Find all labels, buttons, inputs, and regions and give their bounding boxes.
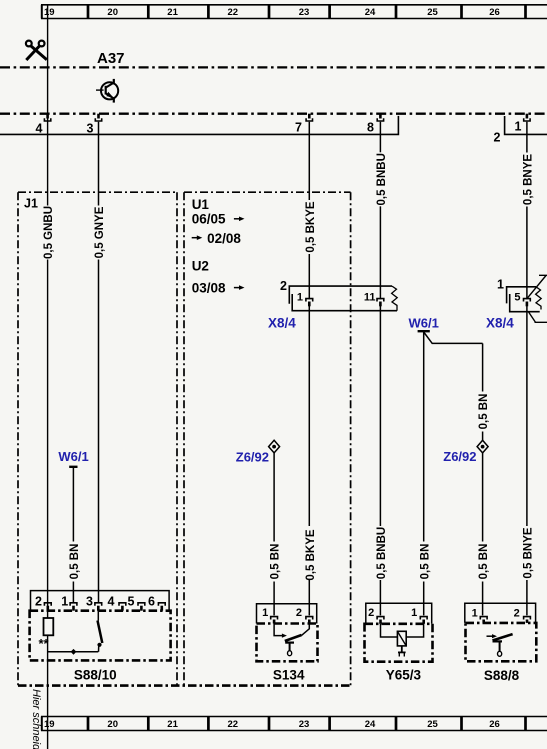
svg-text:6: 6 (148, 594, 155, 608)
U1 validity text block (192, 197, 242, 296)
svg-text:19: 19 (44, 7, 55, 18)
connector X8/4 left: zigzag break (392, 286, 398, 311)
scissors icon (26, 41, 47, 60)
svg-text:24: 24 (365, 7, 376, 18)
svg-text:3: 3 (86, 594, 93, 608)
svg-text:21: 21 (167, 7, 178, 18)
svg-text:Hier schneiden: Hier schneiden (30, 689, 42, 749)
svg-text:1: 1 (297, 292, 303, 304)
wire label 0,5 BNYE top (522, 153, 535, 207)
svg-text:S88/10: S88/10 (74, 667, 117, 682)
svg-text:Y65/3: Y65/3 (386, 667, 422, 682)
svg-text:0,5 BN: 0,5 BN (478, 544, 490, 580)
svg-text:1: 1 (472, 608, 478, 620)
svg-text:U2: U2 (192, 259, 209, 274)
svg-text:3: 3 (87, 122, 94, 136)
S88/10 switch lower stem (98, 647, 100, 652)
wire Z6/92 right to S88/8 pin1 (482, 343, 484, 615)
svg-text:23: 23 (299, 719, 310, 730)
S134 dashed body box (257, 624, 318, 662)
Y65/3 pin 2 (368, 607, 384, 624)
svg-text:1: 1 (411, 607, 417, 619)
wire label 0,5 BN (above Z6/92 right) (477, 392, 490, 432)
wire 0,5 BKYE vertical (pin7 to X8/4 to S134) (308, 122, 310, 616)
A37 box top edge (0, 66, 547, 68)
wire branch W6/1 to Z6/92 (424, 332, 483, 343)
svg-text:1: 1 (497, 278, 504, 292)
resistor inside S88/10 (44, 618, 54, 635)
svg-text:W6/1: W6/1 (409, 316, 439, 331)
wire label 0,5 BN (W6/1 right) (419, 542, 432, 582)
svg-text:Z6/92: Z6/92 (443, 449, 476, 464)
svg-text:S134: S134 (273, 667, 305, 682)
connector X8/4 left: inner bracket (292, 294, 397, 311)
X8/4 pin 1 (297, 292, 313, 307)
svg-text:0,5 BN: 0,5 BN (270, 544, 282, 580)
S88/10 pin 5 (128, 594, 145, 610)
svg-text:02/08: 02/08 (207, 231, 241, 246)
S88/8 connector box (465, 603, 536, 623)
connector X8/4 right: outer bracket (1) (507, 287, 536, 304)
S134 connector box (257, 604, 317, 624)
svg-text:2: 2 (35, 594, 42, 608)
svg-text:03/08: 03/08 (192, 281, 226, 296)
S88/10 connector box (31, 591, 170, 611)
svg-text:X8/4: X8/4 (486, 316, 514, 331)
svg-text:1: 1 (262, 607, 268, 619)
svg-text:0,5 BKYE: 0,5 BKYE (305, 201, 317, 252)
S88/8 dashed body box (466, 623, 537, 661)
X8/4 right: torn-edge diagonals to page edge (528, 275, 547, 322)
svg-text:0,5 BN: 0,5 BN (419, 544, 431, 580)
svg-text:4: 4 (108, 594, 115, 608)
S88/10 switch: pin3 stem (97, 611, 99, 621)
wire label 0,5 BNYE bottom (522, 526, 535, 580)
wire 0,5 GNYE vertical (98, 122, 100, 602)
S88/10 dashed body box (30, 611, 171, 661)
svg-text:2: 2 (296, 607, 302, 619)
Z6/92 right diamond (477, 440, 488, 453)
S88/10 pin 1 (61, 594, 77, 610)
svg-text:0,5 GNYE: 0,5 GNYE (94, 206, 106, 258)
svg-text:2: 2 (494, 131, 501, 145)
svg-text:20: 20 (107, 719, 118, 730)
svg-text:0,5 BNBU: 0,5 BNBU (376, 153, 388, 205)
svg-text:0,5 GNBU: 0,5 GNBU (43, 206, 55, 259)
wire label 0,5 BN (Z6/92 right bottom) (477, 542, 490, 582)
pin 4 of A37 (36, 114, 51, 136)
top right connector bracket (505, 116, 547, 134)
X8/4 pin 11 (364, 292, 384, 307)
wire label 0,5 BKYE bottom (304, 526, 317, 581)
wire label 0,5 BNBU top (375, 152, 388, 206)
component box U1/U2 (184, 192, 351, 685)
Y65/3 pin 1 (411, 607, 427, 624)
svg-text:1: 1 (515, 120, 522, 134)
arrow before 02/08 (192, 235, 203, 240)
wire label 0,5 BKYE top (304, 200, 317, 254)
connector X8/4 right: zigzag break (536, 287, 542, 310)
component box J1 (18, 192, 177, 685)
top ruler (41, 5, 547, 19)
pin 1 of top-right connector (515, 114, 531, 134)
wire 0,5 BNYE vertical (right connector to X8/4 pin5 to S88/8) (526, 122, 528, 616)
ground W6/1 left bar (69, 466, 77, 468)
svg-text:7: 7 (295, 121, 302, 135)
junction dot on bus (71, 649, 77, 655)
A37 connector bracket (0, 116, 398, 134)
wire label 0,5 BNBU bottom (375, 526, 388, 580)
Y65/3 solenoid internals (381, 624, 424, 657)
wire 0,5 BNBU vertical (pin8 to X8/4 pin11 to Y65/3) (379, 122, 381, 616)
svg-text:23: 23 (299, 7, 310, 18)
S88/10 pin 6 (148, 594, 165, 610)
svg-text:S88/8: S88/8 (484, 668, 520, 683)
svg-text:20: 20 (107, 7, 118, 18)
svg-text:2: 2 (368, 607, 374, 619)
svg-text:W6/1: W6/1 (58, 449, 88, 464)
wire W6/1 to Y65/3 pin1 (423, 331, 425, 615)
S88/10 switch contact dot (97, 643, 101, 647)
wire label 0,5 BN (Z6/92 left) (269, 542, 282, 582)
svg-text:2: 2 (514, 608, 520, 620)
A37 box bottom edge (0, 113, 547, 115)
svg-text:25: 25 (427, 7, 438, 18)
wire label 0,5 BN (W6/1 left) (68, 542, 81, 582)
S88/10 pin 4 (108, 594, 126, 610)
pin 3 of A37 (87, 114, 102, 136)
arrow after 03/08 (234, 285, 245, 290)
S88/8 pin 2 (514, 608, 531, 623)
pin 8 of A37 (367, 114, 384, 135)
svg-text:0,5 BKYE: 0,5 BKYE (305, 529, 317, 580)
wire label 0,5 GNBU (42, 206, 55, 260)
svg-text:X8/4: X8/4 (268, 316, 296, 331)
svg-text:06/05: 06/05 (192, 212, 226, 227)
svg-text:8: 8 (367, 121, 374, 135)
svg-text:5: 5 (128, 594, 135, 608)
svg-text:25: 25 (427, 719, 438, 730)
S134 pin 1 (262, 607, 277, 623)
wire W6/1 left to S88/10 pin1 (72, 467, 74, 602)
svg-text:26: 26 (489, 7, 500, 18)
svg-text:A37: A37 (97, 50, 125, 67)
svg-text:0,5 BNBU: 0,5 BNBU (376, 527, 388, 579)
wire Z6/92 left to S134 pin1 (273, 453, 275, 616)
bottom ruler (41, 717, 547, 731)
svg-text:0,5 BN: 0,5 BN (478, 394, 490, 430)
svg-text:Z6/92: Z6/92 (236, 450, 269, 465)
svg-text:2: 2 (280, 279, 287, 293)
S88/10 switch blade (98, 621, 103, 644)
Y65/3 dashed body box (365, 624, 433, 662)
ground W6/1 right bar (418, 330, 430, 332)
svg-text:1: 1 (61, 594, 68, 608)
S88/10 internal bus wire (48, 651, 99, 653)
svg-text:22: 22 (228, 719, 239, 730)
svg-text:11: 11 (364, 292, 376, 304)
svg-text:21: 21 (167, 719, 178, 730)
connector X8/4 right: inner bracket (510, 294, 540, 312)
svg-text:J1: J1 (24, 197, 38, 211)
svg-text:19: 19 (44, 719, 55, 730)
S88/8 pin 1 (472, 608, 488, 623)
svg-text:22: 22 (228, 7, 239, 18)
svg-text:26: 26 (489, 719, 500, 730)
cut line (Hier schneiden line) (47, 5, 49, 749)
bottom ruler numbers (44, 719, 500, 730)
S134 switch internals (274, 624, 309, 656)
S88/10 pin 2 (35, 594, 51, 610)
connector X8/4 left: outer bracket (2) (289, 286, 392, 304)
pin 7 of A37 (295, 114, 312, 135)
S88/10 pin 3 (86, 594, 102, 610)
Z6/92 left diamond (269, 440, 280, 453)
Y65/3 connector box (366, 603, 432, 624)
X8/4 pin 5 (514, 292, 530, 307)
shared bottom edge of J1 and U boxes (18, 684, 351, 687)
transistor icon inside A37 (96, 79, 118, 103)
svg-text:5: 5 (514, 292, 520, 304)
wire label 0,5 GNYE (93, 206, 106, 260)
svg-text:**: ** (39, 636, 50, 651)
top ruler numbers (44, 7, 500, 18)
svg-text:24: 24 (365, 719, 376, 730)
S88/8 switch internals (487, 634, 513, 656)
svg-text:U1: U1 (192, 197, 210, 212)
S134 pin 2 (296, 607, 313, 623)
svg-text:4: 4 (36, 122, 43, 136)
svg-text:0,5 BN: 0,5 BN (69, 544, 81, 580)
arrow after 06/05 (234, 217, 245, 222)
svg-text:0,5 BNYE: 0,5 BNYE (523, 154, 535, 205)
svg-text:0,5 BNYE: 0,5 BNYE (523, 527, 535, 578)
